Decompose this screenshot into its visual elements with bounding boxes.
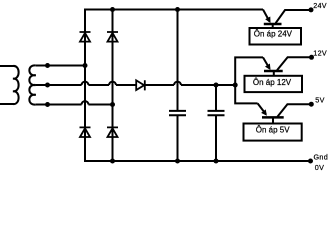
svg-text:Ôn áp 24V: Ôn áp 24V bbox=[254, 30, 293, 39]
svg-text:Ôn áp 12V: Ôn áp 12V bbox=[253, 78, 292, 87]
svg-text:24V: 24V bbox=[313, 1, 327, 10]
svg-text:5V: 5V bbox=[315, 95, 324, 104]
svg-text:Ôn áp 5V: Ôn áp 5V bbox=[256, 125, 290, 134]
svg-text:Gnd: Gnd bbox=[314, 152, 328, 161]
svg-text:0V: 0V bbox=[315, 163, 324, 172]
svg-text:12V: 12V bbox=[313, 49, 327, 58]
